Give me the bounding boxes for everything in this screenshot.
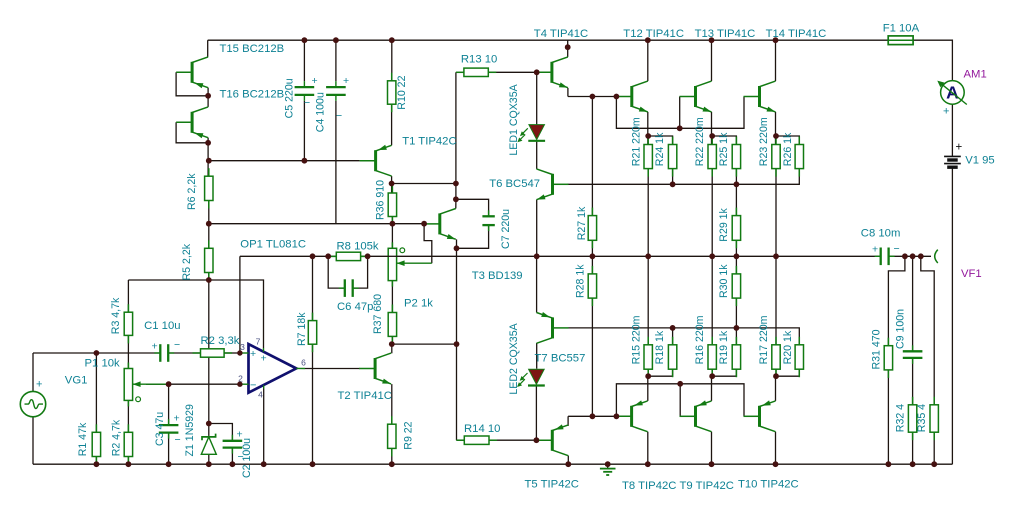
svg-text:VF1: VF1 — [961, 268, 982, 280]
wire C6 loop right — [353, 256, 368, 288]
wire T15 emitter / T16 collector column — [207, 88, 209, 107]
wire T3 collector stub — [455, 199, 457, 208]
zener diode Z1 — [201, 437, 216, 454]
wire op-amp supply line — [128, 280, 263, 348]
svg-text:R3 4,7k: R3 4,7k — [110, 297, 122, 334]
wire R2b to bottom rail — [127, 457, 129, 465]
wire T2 emitter to R9 — [391, 384, 393, 424]
wire C6 loop left — [328, 256, 345, 288]
resistor R13 — [456, 71, 464, 73]
wire LED1 anode lead — [536, 72, 538, 124]
svg-text:T1 TIP42C: T1 TIP42C — [402, 136, 456, 148]
node R19 R30 — [734, 325, 740, 331]
node rail R23 R17 — [773, 253, 779, 259]
node bottom R31 — [886, 461, 892, 467]
wire R16 bottom lead — [711, 369, 713, 376]
svg-text:R13 10: R13 10 — [461, 54, 497, 66]
node bottom T5 — [565, 461, 571, 467]
svg-text:C3 47u: C3 47u — [154, 412, 166, 446]
ammeter AM1 — [941, 81, 965, 105]
svg-text:6: 6 — [301, 358, 306, 368]
wire T4 emitter drop — [567, 88, 569, 97]
node bottom Z1 — [206, 461, 212, 467]
node R13 LED1 — [534, 69, 540, 75]
svg-text:LED2 CQX35A: LED2 CQX35A — [508, 322, 520, 394]
capacitor C7 — [488, 210, 490, 216]
wire R17 to output rail — [775, 256, 777, 345]
resistor R22 — [711, 137, 713, 145]
node T10 emitter — [773, 373, 779, 379]
wire upper base chain — [616, 97, 744, 129]
capacitor C1 — [154, 352, 160, 354]
svg-text:R21 220m: R21 220m — [630, 117, 642, 166]
potentiometer P2 — [391, 242, 393, 248]
wire R19 bottom jog — [712, 369, 736, 376]
resistor R20 — [798, 337, 800, 345]
node R36 top — [389, 181, 395, 187]
svg-text:−: − — [304, 97, 310, 109]
svg-text:F1 10A: F1 10A — [883, 23, 920, 35]
wire T12 emitter column — [647, 112, 649, 145]
wire R24 bottom lead — [672, 169, 674, 185]
wire R24 top jog — [648, 136, 672, 145]
transistor T5 — [551, 430, 554, 451]
wire T13 emitter column — [711, 112, 713, 145]
potentiometer P1 — [127, 363, 129, 369]
node LED2 R14 T5 base — [534, 437, 540, 443]
wire R3 to P1 column — [127, 335, 129, 368]
wire T14 emitter column — [775, 112, 777, 145]
svg-text:4: 4 — [258, 390, 263, 400]
wire P1 wiper to pin2 line — [146, 383, 240, 385]
node T3 emitter — [454, 245, 460, 251]
svg-text:R15 220m: R15 220m — [630, 315, 642, 364]
svg-text:R31 470: R31 470 — [870, 329, 882, 369]
resistor R15 — [647, 337, 649, 345]
svg-text:AM1: AM1 — [964, 69, 987, 81]
wire R27 column — [591, 97, 593, 216]
node rail R29 R30 — [734, 253, 740, 259]
wire R31 to bottom rail — [887, 370, 889, 464]
transistor T14 — [758, 86, 761, 107]
LED2 arrows — [521, 373, 528, 380]
svg-text:−: − — [336, 110, 342, 122]
svg-text:C7 220u: C7 220u — [500, 209, 512, 249]
wire T16 emitter to R6 column — [207, 138, 209, 177]
transistor T12 — [630, 86, 633, 107]
wire T9 collector drop — [711, 432, 713, 465]
svg-text:VG1: VG1 — [65, 375, 88, 387]
svg-text:C6 47p: C6 47p — [337, 301, 373, 313]
svg-text:R9 22: R9 22 — [403, 421, 415, 449]
svg-text:R22 220m: R22 220m — [694, 117, 706, 166]
wire C3 to bottom rail — [168, 433, 170, 465]
wire T5 collector drop — [567, 456, 569, 465]
svg-text:R32 4: R32 4 — [895, 404, 907, 432]
wire T7 emitter to output rail — [536, 256, 538, 312]
svg-text:R17 220m: R17 220m — [758, 315, 770, 364]
svg-text:R5 2,2k: R5 2,2k — [181, 243, 193, 280]
transistor T15 — [191, 62, 194, 83]
wire R28 to T5 emitter line — [591, 298, 593, 416]
wire R6 bottom to P2 line — [209, 223, 424, 225]
svg-text:−: − — [238, 451, 244, 463]
transistor T13 — [694, 86, 697, 107]
wire R21 to output rail — [647, 169, 649, 257]
resistor R7 — [312, 313, 314, 321]
svg-text:R14 10: R14 10 — [464, 423, 500, 435]
svg-text:−: − — [174, 339, 180, 351]
capacitor C2 — [231, 435, 233, 441]
svg-text:R26 1k: R26 1k — [782, 132, 794, 166]
transistor T1 — [374, 150, 377, 171]
svg-text:+: + — [261, 353, 267, 365]
wire R26 top jog — [776, 136, 799, 145]
wire T7 base line — [569, 328, 800, 345]
wire R9 to bottom rail — [391, 448, 393, 464]
wire T9 emitter column — [711, 376, 713, 401]
wire R18 top lead — [672, 328, 674, 345]
transistor T3 — [438, 213, 441, 234]
svg-text:C4 100u: C4 100u — [315, 92, 327, 132]
wire C5 column top — [303, 40, 305, 81]
wire output rail across P2 — [388, 255, 398, 257]
svg-text:R29 1k: R29 1k — [718, 207, 730, 241]
node T13 emitter — [709, 133, 715, 139]
fuse F1 — [888, 36, 913, 45]
capacitor C8 — [875, 255, 881, 257]
ground — [607, 464, 609, 468]
wire T1 collector to R36 — [391, 176, 393, 193]
svg-text:R28 1k: R28 1k — [574, 264, 586, 298]
svg-text:R6 2,2k: R6 2,2k — [186, 173, 198, 210]
node rail T12 — [645, 37, 651, 43]
svg-text:+: + — [250, 348, 256, 360]
resistor R9 — [391, 416, 393, 424]
svg-text:R36 910: R36 910 — [374, 180, 386, 220]
wire op-amp pin4 drop — [263, 389, 265, 465]
svg-text:T12 TIP41C: T12 TIP41C — [623, 28, 684, 40]
AM1 pointer — [940, 83, 967, 105]
node rail C5 — [302, 37, 308, 43]
wire T1 collector node line — [392, 183, 456, 185]
wire R30 column — [735, 256, 737, 274]
resistor R35 — [933, 397, 935, 405]
svg-text:C9 100n: C9 100n — [895, 309, 907, 349]
node R18 top — [670, 325, 676, 331]
wire T14 collector column — [775, 40, 777, 81]
wire op-amp output line — [305, 368, 360, 370]
wire T16 base loop — [176, 122, 208, 143]
node T15 emitter — [205, 93, 211, 99]
node op-amp pin2 — [237, 382, 242, 387]
svg-text:−: − — [250, 380, 256, 392]
wire R17 bottom lead — [775, 369, 777, 376]
wire R10 column top — [391, 40, 393, 81]
wire R2 to pin3 segment — [224, 352, 240, 354]
LED1 — [529, 125, 545, 140]
LED2 — [529, 369, 545, 384]
wire R15 to output rail — [647, 256, 649, 345]
svg-text:T8 TIP42C: T8 TIP42C — [622, 480, 676, 492]
resistor R32 — [912, 397, 914, 405]
resistor R8 — [328, 255, 336, 257]
node chain T13 — [677, 125, 683, 131]
wire T8 collector drop — [647, 432, 649, 465]
wire battery to bottom rail — [951, 167, 953, 464]
node bottom ground — [605, 461, 611, 467]
wire R1 column — [95, 353, 97, 432]
resistor R14 — [456, 439, 464, 441]
wire R14 left lead — [457, 439, 465, 441]
wire R13 column — [455, 72, 457, 199]
node rail R21 R15 — [645, 253, 651, 259]
P2 wiper — [397, 262, 432, 264]
resistor R24 — [672, 137, 674, 145]
wire VG1 bottom lead — [32, 417, 34, 464]
svg-text:T2 TIP41C: T2 TIP41C — [338, 390, 392, 402]
wire T6 base / R24 R25 R26 bottoms line — [568, 169, 800, 185]
wire input line — [33, 352, 160, 354]
node T8 emitter — [645, 373, 651, 379]
svg-text:R27 1k: R27 1k — [576, 206, 588, 240]
svg-text:V1 95: V1 95 — [965, 155, 995, 167]
node rail R35 — [918, 253, 924, 259]
svg-text:+: + — [872, 244, 878, 256]
node T2 collector — [389, 341, 395, 347]
node T4 emitter R27 — [590, 94, 596, 100]
resistor R5 — [208, 240, 210, 248]
resistor R23 — [775, 137, 777, 145]
svg-text:T9 TIP42C: T9 TIP42C — [680, 480, 734, 492]
svg-text:T15 BC212B: T15 BC212B — [220, 43, 285, 55]
wire C7 to T3 emitter — [457, 225, 489, 248]
resistor R18 — [672, 337, 674, 345]
wire R29 to output rail — [735, 240, 737, 256]
wire R1 to bottom rail — [95, 457, 97, 465]
resistor R2 (4,7k) — [127, 424, 129, 432]
svg-text:C1 10u: C1 10u — [144, 320, 180, 332]
wire R37 bottom lead — [391, 336, 393, 344]
svg-text:OP1 TL081C: OP1 TL081C — [240, 239, 306, 251]
transistor T4 — [550, 62, 553, 83]
resistor R19 — [735, 337, 737, 345]
wire R25 top jog — [712, 136, 736, 145]
wire T9 base drop — [679, 384, 681, 417]
resistor R2 (3,3k) — [193, 352, 201, 354]
wire R3 top lead to supply line — [127, 280, 129, 312]
node rail C4 — [333, 37, 339, 43]
svg-text:R25 1k: R25 1k — [718, 132, 730, 166]
node T12 emitter — [645, 133, 651, 139]
resistor R17 — [775, 337, 777, 345]
svg-text:R8 105k: R8 105k — [337, 241, 379, 253]
node input R1 — [94, 350, 100, 356]
node bottom pin4 — [261, 461, 267, 467]
wire T4 emitter line to T12 base — [568, 96, 616, 98]
transistor T7 — [551, 317, 554, 338]
resistor R25 — [735, 137, 737, 145]
resistor R3 — [127, 304, 129, 312]
node T7 base R28 — [590, 413, 596, 419]
svg-text:+: + — [312, 75, 318, 87]
transistor T8 — [630, 406, 633, 427]
node bottom C2 — [230, 461, 236, 467]
capacitor C3 — [168, 419, 170, 425]
wire C1 to R2 segment — [168, 352, 200, 354]
wire R35 to bottom rail — [933, 432, 935, 464]
wire C4 column bottom — [335, 101, 337, 224]
wire R25 bottom lead — [735, 169, 737, 185]
wire R7 column top — [312, 256, 314, 320]
node rail R7 — [310, 253, 316, 259]
wire T12 collector column — [647, 40, 649, 81]
svg-text:R18 1k: R18 1k — [654, 330, 666, 364]
svg-text:R16 220m: R16 220m — [694, 315, 706, 364]
wire T13 collector column — [711, 40, 713, 81]
wire T13 base drop — [679, 97, 681, 129]
wire lower base chain — [616, 384, 744, 417]
P1 terminal marker — [136, 397, 141, 402]
node bottom R9 — [389, 461, 395, 467]
node chain start top — [614, 94, 620, 100]
wire R18 bottom jog — [648, 369, 672, 376]
node rail T6 T7 — [534, 253, 540, 259]
wire T10 emitter column — [775, 376, 777, 401]
svg-text:R37 680: R37 680 — [372, 294, 384, 334]
node rail R27 R28 — [590, 253, 596, 259]
wire R32 to bottom rail — [912, 432, 914, 464]
P1 wiper — [133, 383, 169, 385]
wire T3 collector loop to C7 — [456, 199, 489, 216]
svg-text:T10 TIP42C: T10 TIP42C — [738, 479, 799, 491]
wire T15 base loop — [176, 72, 208, 96]
wire C3 column — [168, 384, 170, 425]
svg-text:R30 1k: R30 1k — [718, 264, 730, 298]
node R24 bottom — [670, 181, 676, 187]
wire T2 collector node line — [392, 343, 457, 345]
wire R19 top lead — [735, 328, 737, 345]
svg-text:R10 22: R10 22 — [396, 75, 408, 109]
wire output mid rail — [240, 255, 881, 257]
wire R22 to output rail — [711, 169, 713, 257]
svg-text:R24 1k: R24 1k — [654, 132, 666, 166]
node rail T14 — [773, 37, 779, 43]
svg-text:−: − — [175, 434, 181, 446]
node rail C6 left — [325, 253, 331, 259]
resistor R10 — [391, 73, 393, 81]
wire P1 to R2b column — [127, 400, 129, 432]
wire C9 branch — [912, 256, 914, 351]
node T3 collector — [453, 196, 459, 202]
wire bottom negative rail — [33, 463, 952, 465]
wire VG1 top lead — [32, 353, 34, 391]
resistor R27 — [591, 208, 593, 216]
node T4 collector — [565, 44, 571, 50]
svg-text:T4 TIP41C: T4 TIP41C — [534, 28, 588, 40]
wire R27 to output rail — [591, 240, 593, 256]
svg-text:T7 BC557: T7 BC557 — [535, 353, 586, 365]
wire R13 right lead to T4 base node — [488, 71, 536, 73]
node rail T13 — [709, 37, 715, 43]
svg-text:+: + — [943, 106, 949, 118]
source VG1 — [20, 391, 45, 416]
resistor R21 — [647, 137, 649, 145]
node T3 base — [421, 221, 427, 227]
wire R36 bottom lead — [391, 217, 393, 224]
op-amp OP1 — [249, 344, 297, 393]
resistor R31 — [887, 338, 889, 346]
svg-text:T14 TIP41C: T14 TIP41C — [766, 28, 827, 40]
node T1 base node — [206, 158, 212, 164]
wire R30 bottom lead — [735, 298, 737, 328]
wire T7 collector to LED2 — [536, 343, 538, 369]
node rail R31 — [902, 253, 908, 259]
node op-amp pin3 — [237, 350, 242, 355]
resistor R30 — [735, 266, 737, 274]
svg-text:7: 7 — [256, 337, 261, 347]
wire R10 to T1 emitter — [391, 104, 393, 145]
node rail C9 — [910, 253, 916, 259]
node R5 bottom — [206, 277, 212, 283]
svg-text:−: − — [894, 243, 900, 255]
wire R5 to Z1 column — [208, 273, 210, 437]
wire R6 to R5 column — [208, 201, 210, 249]
node T16 emitter — [205, 140, 211, 146]
node chain start bottom — [614, 413, 620, 419]
svg-text:+: + — [152, 341, 158, 353]
wire R23 to output rail — [775, 169, 777, 257]
wire T15 collector riser — [207, 40, 209, 57]
svg-text:R19 1k: R19 1k — [718, 330, 730, 364]
svg-text:T5 TIP42C: T5 TIP42C — [525, 479, 579, 491]
svg-text:R35 4: R35 4 — [916, 404, 928, 432]
LED1 arrows — [521, 128, 528, 135]
node bottom R32 — [910, 461, 916, 467]
wire T4 collector riser — [567, 40, 569, 57]
node bottom R1 — [94, 461, 100, 467]
wire R15 bottom lead — [647, 369, 649, 376]
svg-text:C5 220u: C5 220u — [283, 78, 295, 118]
svg-text:R1 47k: R1 47k — [77, 422, 89, 456]
wire T8 emitter column — [647, 376, 649, 401]
transistor T16 — [191, 112, 194, 133]
resistor R37 — [391, 305, 393, 313]
node wiper C3 — [166, 381, 172, 387]
wire R28 column — [591, 256, 593, 274]
node Z1 top — [206, 421, 212, 427]
wire T5 emitter drop — [567, 416, 569, 426]
wire R31 branch — [888, 256, 905, 345]
svg-text:C8 10m: C8 10m — [861, 228, 901, 240]
node R6 bottom — [206, 221, 212, 227]
node bottom T10 — [773, 461, 779, 467]
node bottom R7 — [310, 461, 316, 467]
wire R16 to output rail — [711, 256, 713, 345]
wire T1 base line — [209, 160, 360, 162]
wire R7 column bottom — [312, 344, 314, 464]
wire LED2 cathode lead — [535, 386, 537, 440]
svg-text:Z1 1N5929: Z1 1N5929 — [184, 404, 196, 457]
node R25 R29 — [734, 181, 740, 187]
node bottom C3 — [166, 461, 172, 467]
wire C5 column bottom — [303, 101, 305, 161]
node bottom T8 — [645, 461, 651, 467]
wire R14 to LED2 node — [489, 439, 536, 441]
probe VF1 — [935, 250, 938, 263]
resistor R28 — [591, 266, 593, 274]
wire R20 bottom jog — [776, 369, 799, 376]
